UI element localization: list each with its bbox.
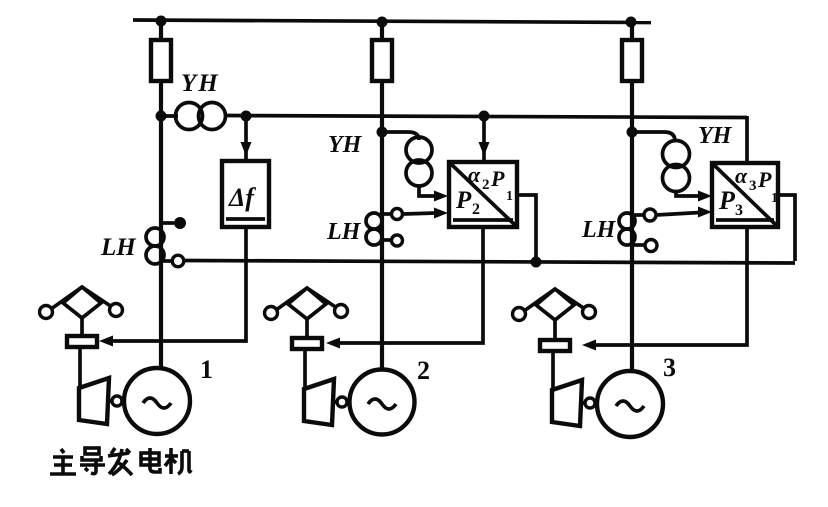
- svg-text:LH: LH: [581, 217, 617, 243]
- wire PT1 primary stub: [161, 114, 178, 118]
- wire G1 feeder vertical: [159, 21, 163, 369]
- governor flyball G2: [265, 288, 348, 320]
- svg-text:P: P: [757, 167, 772, 192]
- node G3 PT tap: [627, 127, 638, 138]
- wire LH2 to P2: [403, 213, 436, 214]
- arrow into P3 left upper: [698, 191, 712, 202]
- node bus-G1: [156, 16, 167, 27]
- arrow into P3 left lower: [698, 207, 712, 218]
- terminal LH2 lower: [392, 235, 403, 246]
- wire LH3 lower lead: [632, 243, 644, 247]
- terminal LH3 upper: [644, 209, 656, 221]
- node YH-P2: [479, 111, 490, 122]
- generator G1: [124, 368, 190, 434]
- wire governor stem G3: [553, 320, 557, 340]
- svg-text:α: α: [468, 162, 481, 187]
- wire P2 right feedback: [517, 195, 536, 262]
- svg-text:YH: YH: [181, 70, 220, 97]
- turbine T3: [552, 380, 582, 426]
- generator G2: [350, 370, 415, 435]
- arrow into P2 left upper: [434, 191, 448, 202]
- fuse FU3: [622, 40, 642, 81]
- wire LH1 upper lead: [161, 221, 174, 225]
- wire LH3 upper lead: [632, 213, 644, 217]
- arrow into governor M2: [326, 338, 340, 349]
- svg-text:LH: LH: [100, 234, 137, 261]
- fuse FU2: [372, 40, 392, 81]
- svg-text:α: α: [735, 163, 748, 188]
- terminal LH1 lower: [172, 255, 184, 267]
- svg-text:P: P: [718, 186, 736, 215]
- arrow into governor M1: [99, 336, 113, 347]
- svg-text:P: P: [490, 166, 505, 191]
- speed setter M3: [540, 340, 570, 351]
- governor flyball G1: [40, 287, 123, 319]
- svg-text:2: 2: [472, 201, 480, 218]
- node YH-df: [241, 111, 252, 122]
- arrow into P2 top: [479, 142, 490, 156]
- svg-text:3: 3: [749, 178, 757, 194]
- arrow into df top: [241, 142, 252, 156]
- wire PT2 to P2: [419, 186, 436, 196]
- terminal LH2 upper: [392, 209, 403, 220]
- voltage transformer YH1: [176, 103, 226, 130]
- wire G2 feeder vertical: [380, 22, 384, 371]
- wire PT2 primary link: [382, 132, 419, 140]
- arrow into governor M3: [582, 340, 596, 351]
- wire governor stem G2: [305, 319, 309, 338]
- speed setter M2: [292, 338, 322, 349]
- node G1 PT tap: [156, 111, 167, 122]
- caption char dian (electric): [141, 448, 160, 472]
- coupling G3: [582, 398, 595, 408]
- svg-text:3: 3: [735, 202, 743, 219]
- label P3: [718, 186, 743, 219]
- wire LH3 to P3: [656, 213, 700, 216]
- wire G3 feeder vertical: [630, 22, 634, 373]
- voltage transformer YH3: [663, 141, 690, 192]
- current transformer LH1: [146, 228, 164, 264]
- wire df output to governor M1: [104, 227, 246, 341]
- generator G3: [597, 371, 663, 437]
- busbar: [133, 20, 651, 23]
- arrow into P2 left lower: [434, 208, 448, 219]
- terminal LH1 upper: [174, 217, 186, 229]
- wire LH2 lower lead: [382, 238, 391, 242]
- svg-text:1: 1: [506, 189, 513, 204]
- caption char fa (generate): [108, 448, 132, 475]
- coupling G1: [109, 396, 122, 406]
- label alpha2P1: [468, 162, 513, 204]
- current transformer LH3: [619, 213, 635, 245]
- wire PT3 to P3: [676, 190, 700, 196]
- caption char ji (machine): [165, 448, 191, 474]
- wire M2 to turbine G2: [303, 349, 307, 391]
- wire P3 output to governor M3: [587, 226, 747, 345]
- terminal LH3 lower: [645, 240, 657, 252]
- governor flyball G3: [513, 289, 596, 321]
- turbine T1: [79, 378, 109, 424]
- node G2 PT tap: [377, 127, 388, 138]
- wire governor stem G1: [80, 318, 84, 336]
- wire P3 right feedback: [778, 195, 795, 261]
- svg-text:2: 2: [417, 356, 430, 385]
- svg-text:2: 2: [482, 177, 490, 193]
- block P3 comparator: [712, 163, 778, 227]
- node P2 feedback junction: [531, 257, 542, 268]
- wire P2 output to governor M2: [331, 227, 483, 343]
- svg-text:1: 1: [200, 355, 213, 384]
- svg-text:YH: YH: [698, 123, 733, 149]
- label alpha3P1: [735, 163, 778, 206]
- caption char dao (lead): [80, 448, 105, 474]
- wire LH1 lower lead: [161, 259, 172, 263]
- block U1 delta-f: [222, 161, 269, 227]
- coupling G2: [334, 397, 347, 407]
- wire P2 top input: [482, 116, 486, 160]
- svg-text:3: 3: [663, 353, 676, 382]
- svg-text:YH: YH: [328, 132, 363, 158]
- svg-text:LH: LH: [326, 219, 362, 245]
- wire PT3 primary link: [632, 132, 675, 141]
- block P2 comparator: [449, 162, 517, 227]
- svg-text:P: P: [455, 187, 472, 214]
- svg-text:Δf: Δf: [228, 183, 256, 212]
- speed setter M1: [67, 336, 97, 347]
- caption char zhu (main): [50, 449, 76, 474]
- node bus-G2: [377, 17, 388, 28]
- voltage transformer YH2: [406, 137, 432, 186]
- svg-text:1: 1: [771, 191, 778, 206]
- turbine T2: [304, 379, 334, 425]
- wire current reference line: [184, 261, 795, 264]
- wire YH drop to P3: [745, 116, 749, 162]
- wire M3 to turbine G3: [551, 351, 555, 392]
- current transformer LH2: [366, 213, 382, 245]
- label P2: [455, 187, 480, 218]
- node bus-G3: [626, 17, 637, 28]
- wire LH2 upper lead: [382, 212, 391, 216]
- fuse FU1: [151, 40, 171, 81]
- wire df input: [244, 116, 248, 160]
- wire YH signal bus: [227, 116, 747, 118]
- wire M1 to turbine G1: [78, 347, 82, 390]
